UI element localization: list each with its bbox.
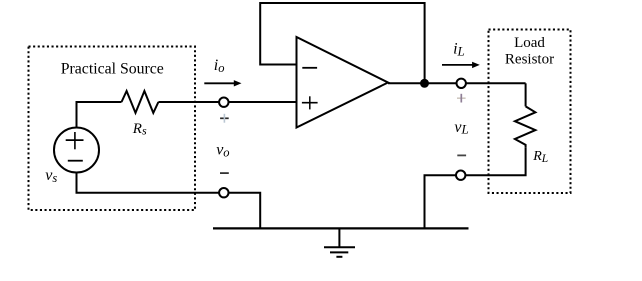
- svg-text:iL: iL: [453, 41, 465, 59]
- svg-text:Practical Source: Practical Source: [61, 61, 164, 78]
- svg-text:vo: vo: [216, 142, 229, 160]
- resistor Rs: [122, 91, 159, 113]
- practical source dashed box: [29, 47, 196, 211]
- arrow: io: [204, 80, 241, 86]
- svg-text:vL: vL: [454, 119, 468, 137]
- ground symbol: [324, 228, 355, 256]
- wire: vL+ terminal down to RL: [525, 83, 527, 106]
- svg-text:Resistor: Resistor: [505, 51, 554, 67]
- op-amp U1: [297, 37, 389, 128]
- resistor RL: [515, 106, 536, 147]
- svg-text:io: io: [214, 57, 225, 75]
- terminal: vo +: [219, 98, 228, 107]
- label: + (vL plus): [457, 94, 466, 103]
- label: &#8722; (vL minus): [457, 154, 466, 156]
- arrow: iL: [442, 62, 480, 68]
- feedback wire: output to inverting input: [260, 3, 424, 83]
- terminal: vL -: [456, 171, 465, 180]
- svg-text:RL: RL: [532, 149, 548, 165]
- svg-text:Load: Load: [514, 35, 545, 51]
- label: Load Resistor: [505, 35, 554, 67]
- wire: RL bottom to vL- terminal to ground rail: [425, 148, 526, 229]
- load resistor dashed box: [489, 30, 571, 194]
- ground rail: [213, 227, 469, 229]
- svg-text:Rs: Rs: [132, 121, 147, 138]
- terminal: vo -: [219, 188, 228, 197]
- wire: Rs to op-amp + input: [158, 101, 296, 103]
- voltage source vs: [54, 128, 99, 173]
- label: &#8722; (vo minus): [220, 172, 229, 174]
- node: output junction: [420, 79, 429, 88]
- terminal: vL +: [457, 79, 466, 88]
- svg-text:vs: vs: [45, 167, 57, 185]
- label: + (vo plus): [220, 114, 229, 123]
- wire: bottom from vs through vo- terminal to ground rail: [77, 172, 261, 228]
- wire: op-amp output to load: [388, 82, 526, 84]
- wire: vs top to resistor Rs: [77, 102, 122, 128]
